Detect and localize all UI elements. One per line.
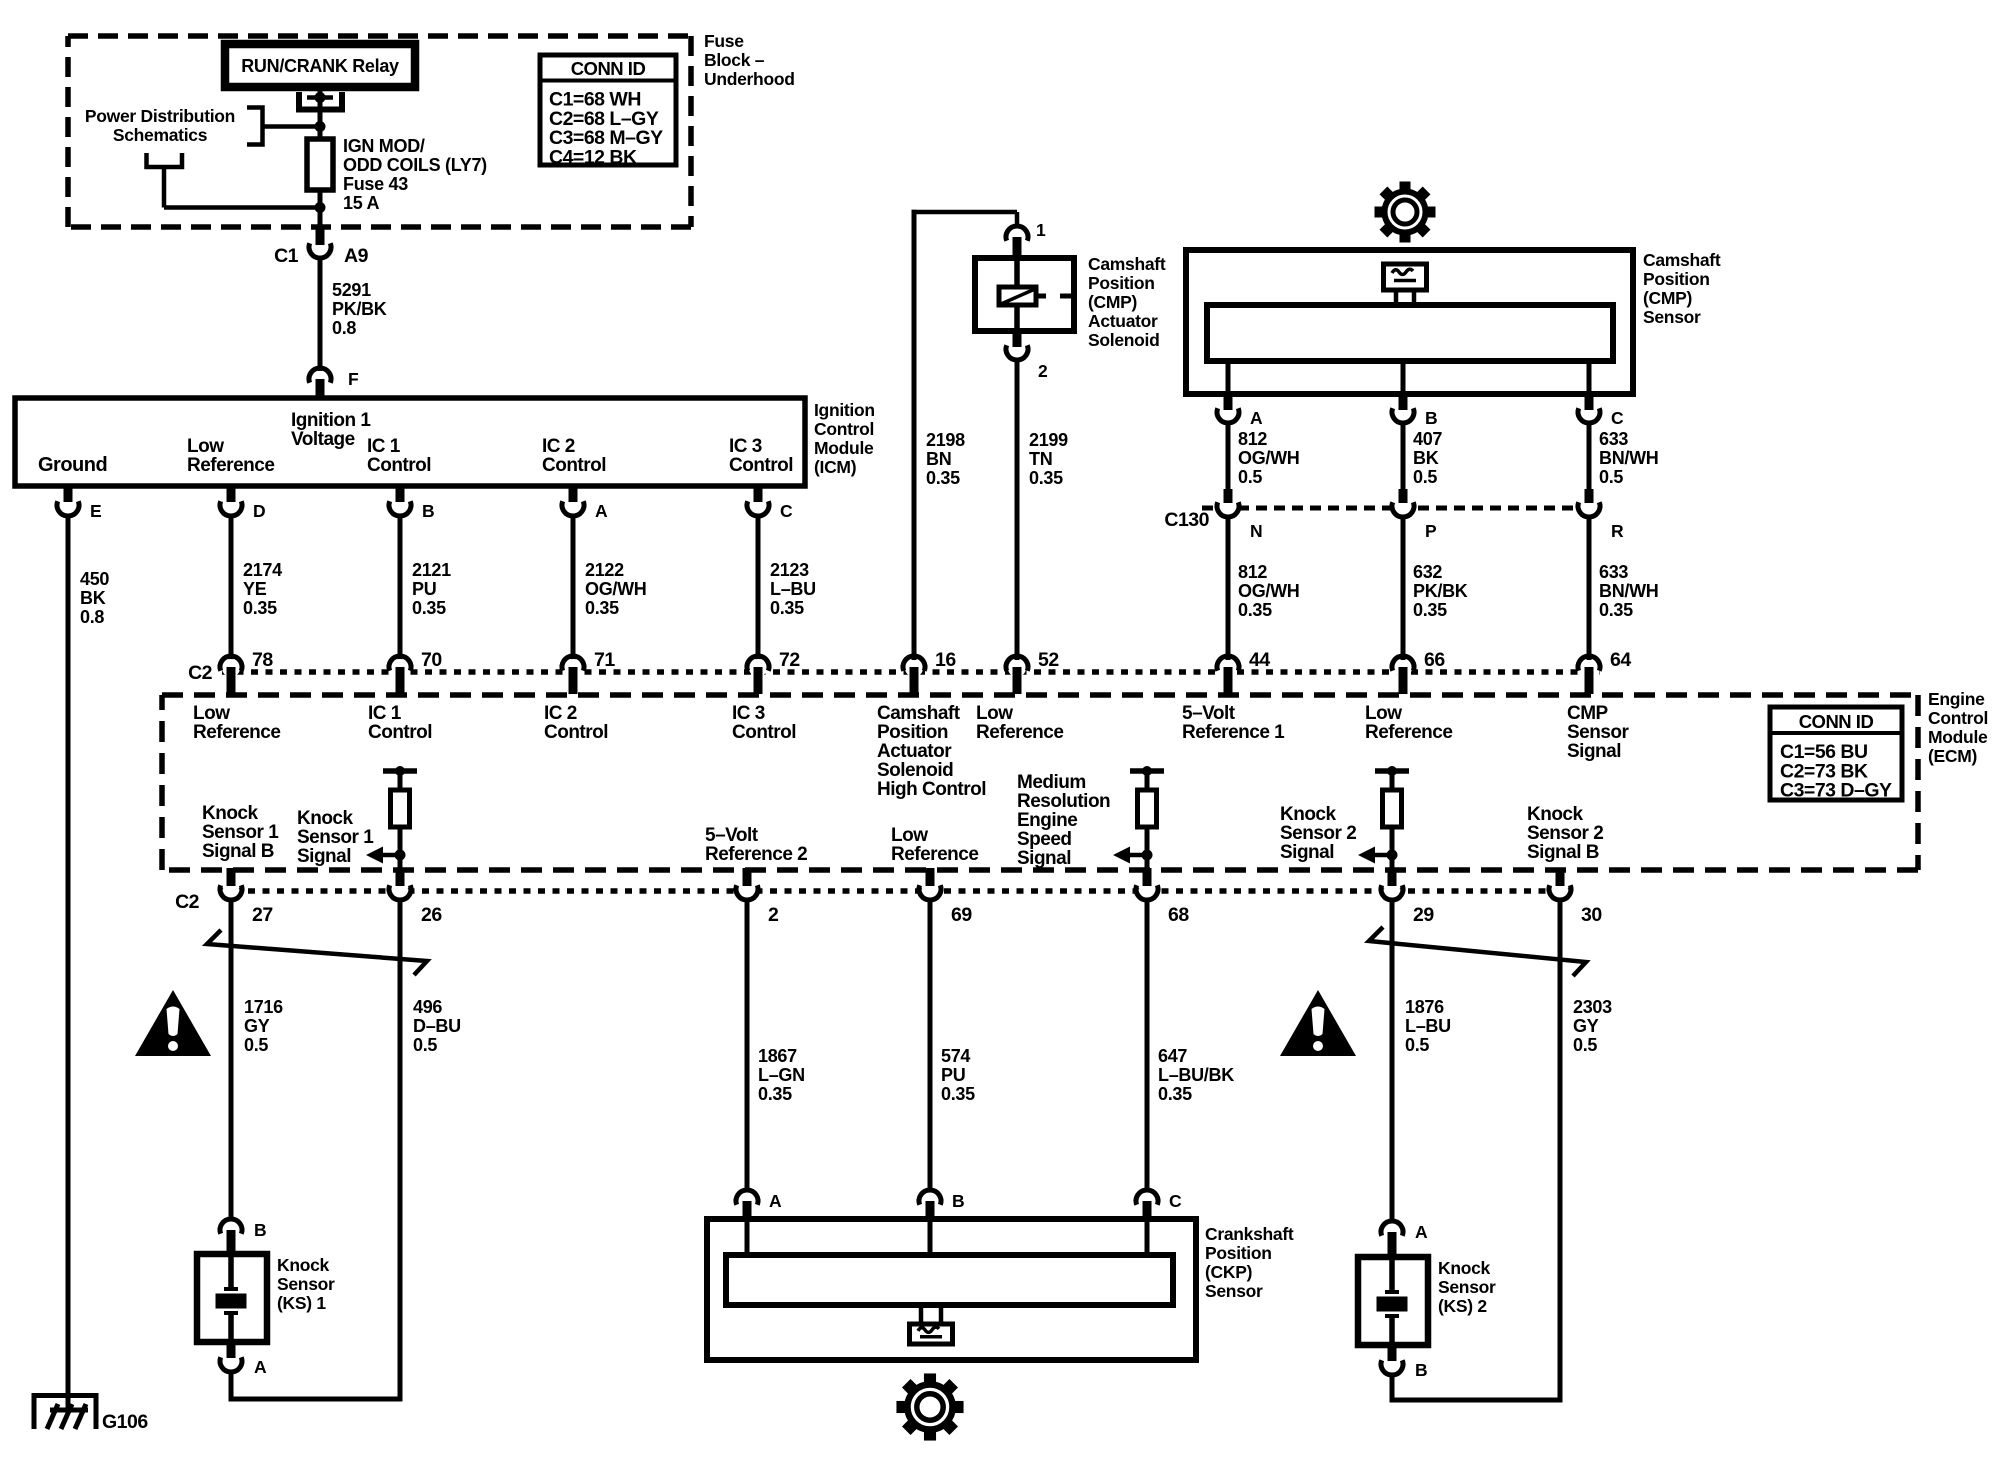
svg-text:L–GN: L–GN bbox=[758, 1065, 805, 1085]
svg-text:0.8: 0.8 bbox=[80, 607, 104, 627]
connector pin A of knock sensor 1 bbox=[227, 1342, 236, 1358]
connector pin 71 into ECM bbox=[564, 659, 582, 677]
svg-text:2121: 2121 bbox=[412, 560, 451, 580]
svg-text:L–BU: L–BU bbox=[770, 579, 816, 599]
svg-text:5–Volt: 5–Volt bbox=[705, 825, 759, 846]
svg-text:2: 2 bbox=[1038, 361, 1048, 381]
svg-text:Camshaft: Camshaft bbox=[1088, 254, 1166, 274]
svg-text:CONN ID: CONN ID bbox=[571, 58, 646, 79]
svg-text:Reference 1: Reference 1 bbox=[1182, 722, 1285, 743]
svg-text:Knock: Knock bbox=[297, 808, 354, 829]
svg-text:A: A bbox=[254, 1357, 267, 1377]
svg-text:5–Volt: 5–Volt bbox=[1182, 703, 1236, 724]
svg-text:Signal B: Signal B bbox=[1527, 842, 1599, 863]
connector pin A of ICM bbox=[569, 486, 578, 502]
svg-text:66: 66 bbox=[1424, 649, 1445, 671]
svg-text:0.5: 0.5 bbox=[1413, 467, 1437, 487]
resistor internal pull-up (medium resolution engine speed) bbox=[1130, 768, 1164, 774]
connector pin 69 out of ECM bbox=[921, 884, 939, 902]
svg-text:PU: PU bbox=[412, 579, 436, 599]
svg-text:C130: C130 bbox=[1164, 509, 1209, 531]
svg-text:Control: Control bbox=[729, 455, 793, 476]
connector pin 68 out of ECM bbox=[1138, 884, 1156, 902]
svg-text:Control: Control bbox=[1928, 708, 1988, 728]
connector pin 29 out of ECM bbox=[1383, 884, 1401, 902]
connector pin 30 out of ECM bbox=[1551, 884, 1569, 902]
svg-text:B: B bbox=[1425, 408, 1437, 428]
svg-text:647: 647 bbox=[1158, 1046, 1187, 1066]
connector pin 26 out of ECM bbox=[391, 884, 409, 902]
svg-text:Signal: Signal bbox=[1017, 848, 1071, 869]
wire solenoid pin 1 drop bbox=[1015, 212, 1020, 227]
connector pin E of ICM bbox=[64, 486, 73, 502]
svg-text:Low: Low bbox=[193, 703, 230, 724]
svg-text:BK: BK bbox=[1413, 448, 1439, 468]
connector pin A of CKP sensor bbox=[736, 1190, 758, 1205]
svg-text:Control: Control bbox=[542, 455, 606, 476]
svg-text:L–BU: L–BU bbox=[1405, 1016, 1451, 1036]
svg-text:B: B bbox=[254, 1220, 266, 1240]
svg-text:2122: 2122 bbox=[585, 560, 624, 580]
svg-text:0.35: 0.35 bbox=[1158, 1084, 1192, 1104]
connector pin B of CKP sensor bbox=[919, 1190, 941, 1205]
svg-text:72: 72 bbox=[779, 649, 800, 671]
svg-text:YE: YE bbox=[243, 579, 267, 599]
svg-text:64: 64 bbox=[1610, 649, 1631, 671]
svg-text:Knock: Knock bbox=[1527, 804, 1584, 825]
svg-text:(ICM): (ICM) bbox=[814, 457, 856, 477]
svg-text:Control: Control bbox=[368, 722, 432, 743]
svg-text:Power Distribution: Power Distribution bbox=[85, 106, 235, 126]
sensor B CMP Camshaft Position Sensor outer box bbox=[1186, 250, 1633, 394]
svg-text:70: 70 bbox=[421, 649, 442, 671]
wire 2303 GY 0.5 bbox=[1558, 902, 1563, 1403]
svg-text:Signal: Signal bbox=[297, 846, 351, 867]
module ICM Ignition Control Module box bbox=[15, 398, 805, 486]
node junction relay/power-distribution bbox=[315, 121, 326, 132]
svg-text:(KS) 2: (KS) 2 bbox=[1438, 1296, 1487, 1316]
wire 2123 L-BU 0.35 bbox=[756, 516, 761, 660]
svg-text:B: B bbox=[422, 501, 434, 521]
svg-text:407: 407 bbox=[1413, 429, 1442, 449]
connector C1 pin A9 bbox=[316, 229, 325, 245]
svg-text:0.5: 0.5 bbox=[244, 1035, 268, 1055]
svg-text:Sensor: Sensor bbox=[1567, 722, 1630, 743]
svg-text:Control: Control bbox=[544, 722, 608, 743]
connector pin 72 into ECM bbox=[749, 659, 767, 677]
relay contact symbol bbox=[299, 92, 342, 110]
svg-text:Actuator: Actuator bbox=[877, 741, 952, 762]
svg-text:BN/WH: BN/WH bbox=[1599, 581, 1659, 601]
svg-text:High Control: High Control bbox=[877, 779, 986, 800]
svg-text:0.5: 0.5 bbox=[413, 1035, 437, 1055]
svg-text:Sensor: Sensor bbox=[1205, 1281, 1263, 1301]
svg-text:68: 68 bbox=[1168, 904, 1189, 926]
svg-text:C3=73 D–GY: C3=73 D–GY bbox=[1780, 780, 1892, 802]
svg-text:Signal B: Signal B bbox=[202, 841, 274, 862]
svg-text:1716: 1716 bbox=[244, 997, 283, 1017]
connector pin A of knock sensor 2 bbox=[1381, 1221, 1403, 1236]
svg-text:Solenoid: Solenoid bbox=[1088, 330, 1160, 350]
svg-text:Control: Control bbox=[814, 419, 874, 439]
sensor Knock Sensor (KS) 2 box bbox=[1358, 1257, 1428, 1345]
svg-text:2199: 2199 bbox=[1029, 430, 1068, 450]
connector pin C of CMP sensor bbox=[1587, 361, 1592, 394]
svg-text:Low: Low bbox=[187, 436, 224, 457]
svg-text:27: 27 bbox=[252, 904, 273, 926]
svg-text:Ignition 1: Ignition 1 bbox=[291, 410, 371, 431]
svg-text:ODD COILS (LY7): ODD COILS (LY7) bbox=[343, 155, 487, 175]
wire 812 OG/WH 0.35 bbox=[1226, 519, 1231, 660]
svg-text:Control: Control bbox=[732, 722, 796, 743]
wire 450 BK 0.8 (ground wire E to G106) bbox=[66, 516, 71, 1399]
svg-text:Reference: Reference bbox=[976, 722, 1063, 743]
resistor internal pull-up (knock sensor 1) bbox=[383, 768, 417, 774]
wire 1867 L-GN 0.35 bbox=[745, 902, 750, 1192]
connector pin B of knock sensor 1 bbox=[220, 1219, 242, 1234]
svg-text:Sensor: Sensor bbox=[277, 1274, 335, 1294]
svg-text:PK/BK: PK/BK bbox=[332, 299, 387, 319]
svg-text:C1: C1 bbox=[274, 245, 299, 267]
svg-text:450: 450 bbox=[80, 569, 109, 589]
svg-text:1876: 1876 bbox=[1405, 997, 1444, 1017]
connector table CONN ID (fuse block) bbox=[540, 55, 676, 165]
svg-text:C2: C2 bbox=[188, 662, 213, 684]
svg-text:(CMP): (CMP) bbox=[1643, 288, 1692, 308]
svg-text:30: 30 bbox=[1581, 904, 1602, 926]
wire 633 BN/WH 0.35 (lower) bbox=[1587, 519, 1592, 660]
svg-text:812: 812 bbox=[1238, 429, 1267, 449]
wire bracket to power distribution schematics (right) bbox=[247, 108, 263, 145]
svg-text:Medium: Medium bbox=[1017, 772, 1086, 793]
connector pin 70 into ECM bbox=[391, 659, 409, 677]
svg-text:52: 52 bbox=[1038, 649, 1059, 671]
sensor CKP Crankshaft Position Sensor outer box bbox=[707, 1219, 1196, 1360]
svg-text:Sensor 2: Sensor 2 bbox=[1280, 823, 1356, 844]
svg-text:Reference: Reference bbox=[891, 844, 978, 865]
svg-text:Ignition: Ignition bbox=[814, 400, 875, 420]
svg-text:0.35: 0.35 bbox=[926, 468, 960, 488]
svg-text:Engine: Engine bbox=[1928, 689, 1985, 709]
connector pin A of CMP sensor bbox=[1226, 361, 1231, 394]
svg-text:1: 1 bbox=[1036, 220, 1046, 240]
svg-text:Position: Position bbox=[877, 722, 948, 743]
wire 5291 PK/BK 0.8 bbox=[318, 258, 323, 371]
svg-text:Reference: Reference bbox=[187, 455, 274, 476]
svg-text:PU: PU bbox=[941, 1065, 965, 1085]
svg-text:BN/WH: BN/WH bbox=[1599, 448, 1659, 468]
svg-text:Reference 2: Reference 2 bbox=[705, 844, 807, 865]
svg-text:D: D bbox=[253, 501, 265, 521]
wire 632 PK/BK 0.35 bbox=[1401, 519, 1406, 660]
connector C130 pin P bbox=[1394, 499, 1412, 517]
wire bracket to power distribution schematics (bottom) bbox=[147, 153, 183, 167]
warning symbol triangle (knock sensor 2) bbox=[1280, 990, 1356, 1056]
svg-text:2198: 2198 bbox=[926, 430, 965, 450]
svg-text:Sensor 1: Sensor 1 bbox=[297, 827, 374, 848]
fuse F43 IGN MOD/ODD COILS (LY7) Fuse 43 15 A bbox=[307, 139, 333, 190]
svg-text:Module: Module bbox=[1928, 727, 1988, 747]
connector pin 66 into ECM bbox=[1394, 659, 1412, 677]
node junction fuse output bbox=[315, 202, 326, 213]
svg-text:C: C bbox=[1169, 1191, 1182, 1211]
wire 1716 GY 0.5 bbox=[229, 902, 234, 1220]
svg-text:2174: 2174 bbox=[243, 560, 282, 580]
svg-text:OG/WH: OG/WH bbox=[1238, 448, 1300, 468]
svg-text:1867: 1867 bbox=[758, 1046, 797, 1066]
svg-text:2: 2 bbox=[768, 904, 779, 926]
svg-text:IC 3: IC 3 bbox=[729, 436, 762, 457]
connector C130 pin N bbox=[1219, 499, 1237, 517]
svg-text:0.35: 0.35 bbox=[770, 598, 804, 618]
svg-text:(CKP): (CKP) bbox=[1205, 1262, 1252, 1282]
svg-text:C: C bbox=[1611, 408, 1624, 428]
svg-text:(KS) 1: (KS) 1 bbox=[277, 1293, 326, 1313]
connector pin 2 of CMP actuator solenoid bbox=[1013, 331, 1022, 347]
svg-text:IC 3: IC 3 bbox=[732, 703, 765, 724]
svg-text:78: 78 bbox=[252, 649, 273, 671]
svg-text:Engine: Engine bbox=[1017, 810, 1077, 831]
connector pin B of ICM bbox=[396, 486, 405, 502]
svg-text:P: P bbox=[1425, 521, 1437, 541]
wire 2121 PU 0.35 bbox=[398, 516, 403, 660]
svg-text:Position: Position bbox=[1205, 1243, 1272, 1263]
svg-text:F: F bbox=[348, 369, 359, 389]
CKP sensor connector symbol bbox=[919, 1305, 924, 1324]
svg-text:0.35: 0.35 bbox=[412, 598, 446, 618]
svg-text:16: 16 bbox=[935, 649, 956, 671]
svg-text:0.35: 0.35 bbox=[1413, 600, 1447, 620]
svg-text:IC 2: IC 2 bbox=[542, 436, 575, 457]
wire 647 L-BU/BK 0.35 bbox=[1145, 902, 1150, 1192]
solenoid L1 CMP Actuator Solenoid box bbox=[975, 258, 1074, 331]
svg-text:0.5: 0.5 bbox=[1238, 467, 1262, 487]
svg-text:Resolution: Resolution bbox=[1017, 791, 1110, 812]
svg-text:C4=12 BK: C4=12 BK bbox=[549, 146, 637, 168]
svg-text:OG/WH: OG/WH bbox=[1238, 581, 1300, 601]
sensor Knock Sensor (KS) 1 box bbox=[197, 1254, 267, 1342]
svg-text:Sensor 1: Sensor 1 bbox=[202, 822, 279, 843]
svg-text:B: B bbox=[952, 1191, 964, 1211]
svg-text:C2: C2 bbox=[175, 891, 200, 913]
svg-text:Actuator: Actuator bbox=[1088, 311, 1158, 331]
svg-text:Position: Position bbox=[1088, 273, 1155, 293]
wire 496 D-BU 0.5 bbox=[398, 902, 403, 1402]
svg-text:Low: Low bbox=[976, 703, 1013, 724]
svg-text:IGN MOD/: IGN MOD/ bbox=[343, 136, 425, 156]
svg-text:Sensor: Sensor bbox=[1438, 1277, 1496, 1297]
svg-text:(ECM): (ECM) bbox=[1928, 746, 1977, 766]
svg-text:632: 632 bbox=[1413, 562, 1442, 582]
svg-text:Block –: Block – bbox=[704, 50, 765, 70]
twisted pair marker (knock sensor 1 wires) bbox=[207, 930, 427, 975]
svg-text:Fuse: Fuse bbox=[704, 31, 744, 51]
svg-text:Camshaft: Camshaft bbox=[877, 703, 961, 724]
svg-text:0.8: 0.8 bbox=[332, 318, 356, 338]
svg-text:2303: 2303 bbox=[1573, 997, 1612, 1017]
svg-text:Module: Module bbox=[814, 438, 874, 458]
wire 633 BN/WH 0.5 bbox=[1587, 425, 1592, 489]
svg-text:5291: 5291 bbox=[332, 280, 371, 300]
svg-text:A: A bbox=[1250, 408, 1263, 428]
connector pin C of ICM bbox=[754, 486, 763, 502]
connector pin B of knock sensor 2 bbox=[1388, 1345, 1397, 1361]
svg-text:633: 633 bbox=[1599, 562, 1628, 582]
svg-text:(CMP): (CMP) bbox=[1088, 292, 1137, 312]
icon gear (camshaft) bbox=[1375, 182, 1436, 243]
svg-text:Signal: Signal bbox=[1280, 842, 1334, 863]
connector row C2/C1 dotted line (ECM top) bbox=[222, 669, 1600, 675]
svg-text:IC 1: IC 1 bbox=[367, 436, 401, 457]
svg-text:A: A bbox=[595, 501, 608, 521]
svg-text:Crankshaft: Crankshaft bbox=[1205, 1224, 1294, 1244]
wire 812 OG/WH 0.5 bbox=[1226, 425, 1231, 489]
connector pin D of ICM bbox=[227, 486, 236, 502]
svg-text:Reference: Reference bbox=[193, 722, 280, 743]
connector pin 27 out of ECM bbox=[222, 884, 240, 902]
connector pin 64 into ECM bbox=[1580, 659, 1598, 677]
svg-text:TN: TN bbox=[1029, 449, 1052, 469]
svg-text:PK/BK: PK/BK bbox=[1413, 581, 1468, 601]
svg-text:633: 633 bbox=[1599, 429, 1628, 449]
svg-text:BK: BK bbox=[80, 588, 106, 608]
svg-text:Schematics: Schematics bbox=[113, 125, 208, 145]
CMP sensor inner element box bbox=[1207, 305, 1613, 361]
svg-text:RUN/CRANK Relay: RUN/CRANK Relay bbox=[241, 56, 399, 76]
svg-text:A9: A9 bbox=[344, 245, 369, 267]
connector pin F into ICM bbox=[309, 368, 331, 383]
connector C130 pin R bbox=[1580, 499, 1598, 517]
connector pin 2 out of ECM bbox=[738, 884, 756, 902]
wire 1876 L-BU 0.5 bbox=[1390, 902, 1395, 1222]
svg-text:C: C bbox=[780, 501, 793, 521]
svg-text:CMP: CMP bbox=[1567, 703, 1609, 724]
svg-text:574: 574 bbox=[941, 1046, 970, 1066]
svg-text:A: A bbox=[1415, 1222, 1428, 1242]
svg-text:0.35: 0.35 bbox=[1029, 468, 1063, 488]
svg-text:Knock: Knock bbox=[277, 1255, 330, 1275]
twisted pair marker (knock sensor 2 wires) bbox=[1369, 927, 1586, 976]
wire 574 PU 0.35 bbox=[928, 902, 933, 1192]
svg-text:A: A bbox=[769, 1191, 782, 1211]
warning symbol triangle (knock sensor 1) bbox=[135, 990, 211, 1056]
wire knock sensor 2 loop to 2303 bbox=[1390, 1377, 1395, 1400]
svg-text:15 A: 15 A bbox=[343, 193, 379, 213]
connector pin 16 into ECM bbox=[905, 659, 923, 677]
wire 2199 TN 0.35 bbox=[1015, 362, 1020, 660]
svg-text:0.35: 0.35 bbox=[585, 598, 619, 618]
svg-text:2123: 2123 bbox=[770, 560, 809, 580]
connector row C130 dashed line bbox=[1202, 506, 1578, 511]
fuse block - underhood dashed box bbox=[68, 33, 691, 39]
svg-text:Knock: Knock bbox=[202, 803, 259, 824]
resistor internal pull-up (knock sensor 2) bbox=[1375, 768, 1409, 774]
connector pin 52 into ECM bbox=[1008, 659, 1026, 677]
svg-text:E: E bbox=[90, 501, 101, 521]
svg-text:Underhood: Underhood bbox=[704, 69, 795, 89]
connector pin 78 into ECM bbox=[222, 659, 240, 677]
svg-text:0.35: 0.35 bbox=[941, 1084, 975, 1104]
svg-text:496: 496 bbox=[413, 997, 442, 1017]
ground G106 symbol bbox=[34, 1396, 96, 1430]
svg-text:71: 71 bbox=[594, 649, 615, 671]
connector pin B of CMP sensor bbox=[1401, 361, 1406, 394]
CMP sensor connector symbol bbox=[1384, 264, 1427, 290]
svg-text:IC 1: IC 1 bbox=[368, 703, 402, 724]
svg-text:Knock: Knock bbox=[1280, 804, 1337, 825]
svg-text:26: 26 bbox=[421, 904, 442, 926]
svg-text:GY: GY bbox=[244, 1016, 270, 1036]
svg-text:44: 44 bbox=[1249, 649, 1270, 671]
CKP sensor inner element box bbox=[726, 1255, 1173, 1305]
svg-text:0.35: 0.35 bbox=[243, 598, 277, 618]
connector table CONN ID (ECM) bbox=[1770, 707, 1902, 800]
solenoid coil element bbox=[999, 287, 1036, 305]
svg-text:BN: BN bbox=[926, 449, 951, 469]
svg-text:B: B bbox=[1415, 1360, 1427, 1380]
svg-text:Reference: Reference bbox=[1365, 722, 1452, 743]
svg-text:Sensor 2: Sensor 2 bbox=[1527, 823, 1603, 844]
svg-text:0.35: 0.35 bbox=[758, 1084, 792, 1104]
svg-text:Ground: Ground bbox=[38, 454, 107, 476]
svg-text:0.35: 0.35 bbox=[1238, 600, 1272, 620]
svg-text:Speed: Speed bbox=[1017, 829, 1072, 850]
svg-text:29: 29 bbox=[1413, 904, 1434, 926]
svg-text:Low: Low bbox=[891, 825, 928, 846]
icon gear (crankshaft) bbox=[896, 1373, 963, 1440]
relay K RUN/CRANK Relay box bbox=[225, 44, 415, 87]
svg-text:Signal: Signal bbox=[1567, 741, 1621, 762]
svg-text:R: R bbox=[1611, 521, 1624, 541]
wire knock sensor 1 loop to 496 bbox=[229, 1374, 234, 1399]
svg-text:Position: Position bbox=[1643, 269, 1710, 289]
wire 2198 BN 0.35 (solenoid high control) bbox=[912, 210, 917, 660]
svg-text:OG/WH: OG/WH bbox=[585, 579, 647, 599]
svg-text:0.5: 0.5 bbox=[1573, 1035, 1597, 1055]
svg-text:G106: G106 bbox=[102, 1411, 148, 1433]
svg-text:Control: Control bbox=[367, 455, 431, 476]
svg-text:812: 812 bbox=[1238, 562, 1267, 582]
wire relay to fuse bbox=[318, 87, 323, 140]
svg-text:CONN ID: CONN ID bbox=[1799, 711, 1874, 732]
svg-text:0.35: 0.35 bbox=[1599, 600, 1633, 620]
svg-text:Sensor: Sensor bbox=[1643, 307, 1701, 327]
connector pin 1 of CMP actuator solenoid bbox=[1006, 226, 1028, 241]
wire 2174 YE 0.35 bbox=[229, 516, 234, 660]
svg-text:L–BU/BK: L–BU/BK bbox=[1158, 1065, 1234, 1085]
connector pin 44 into ECM bbox=[1219, 659, 1237, 677]
svg-text:Camshaft: Camshaft bbox=[1643, 250, 1721, 270]
svg-text:Voltage: Voltage bbox=[291, 429, 355, 450]
svg-text:0.5: 0.5 bbox=[1405, 1035, 1429, 1055]
svg-text:Knock: Knock bbox=[1438, 1258, 1491, 1278]
svg-text:N: N bbox=[1250, 521, 1262, 541]
svg-text:69: 69 bbox=[951, 904, 972, 926]
connector pin C of CKP sensor bbox=[1136, 1190, 1158, 1205]
connector row C2 dotted line (ECM bottom) bbox=[219, 888, 1570, 894]
svg-text:Fuse 43: Fuse 43 bbox=[343, 174, 408, 194]
svg-text:IC 2: IC 2 bbox=[544, 703, 577, 724]
wire 2122 OG/WH 0.35 bbox=[571, 516, 576, 660]
svg-text:D–BU: D–BU bbox=[413, 1016, 461, 1036]
svg-text:0.5: 0.5 bbox=[1599, 467, 1623, 487]
svg-text:Low: Low bbox=[1365, 703, 1402, 724]
svg-text:GY: GY bbox=[1573, 1016, 1599, 1036]
module ECM Engine Control Module dashed box bbox=[162, 692, 1918, 698]
svg-text:Solenoid: Solenoid bbox=[877, 760, 953, 781]
wire 407 BK 0.5 bbox=[1401, 425, 1406, 489]
